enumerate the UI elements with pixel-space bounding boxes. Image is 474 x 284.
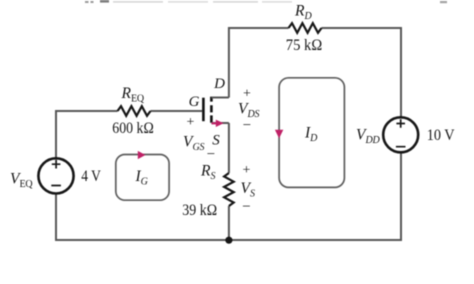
- svg-text:D: D: [213, 76, 225, 92]
- svg-text:10 V: 10 V: [427, 127, 456, 144]
- current loop ID: [279, 78, 344, 188]
- source VDD: [383, 117, 418, 152]
- ID loop arrow (magenta): [275, 130, 283, 139]
- wire left upper: VEQ top to REQ: [56, 111, 118, 158]
- resistor REQ: [118, 106, 151, 116]
- svg-text:75 kΩ: 75 kΩ: [286, 37, 322, 54]
- MOSFET source arrow (magenta): [212, 120, 224, 127]
- wire source riser / RS column: [228, 123, 230, 240]
- cropped text remnants top edge: [85, 0, 447, 3]
- svg-text:+: +: [243, 87, 251, 102]
- svg-text:−: −: [243, 118, 251, 134]
- junction node dot: [225, 237, 232, 244]
- wire top right: RD to right vertical: [322, 28, 402, 117]
- MOSFET source lead: [211, 122, 229, 124]
- resistor RD: [289, 23, 322, 33]
- MOSFET channel (dashed, enhancement mode): [210, 97, 213, 123]
- svg-text:4 V: 4 V: [81, 168, 101, 185]
- wire right lower: VDD bottom to bottom right corner: [229, 152, 401, 240]
- MOSFET drain lead: [211, 97, 229, 99]
- IG loop arrow (magenta): [138, 151, 146, 159]
- current loop IG: [116, 155, 169, 201]
- svg-text:600 kΩ: 600 kΩ: [112, 120, 154, 137]
- svg-text:+: +: [187, 115, 195, 130]
- wire bottom left: [56, 193, 229, 240]
- wire gate lead: [151, 110, 203, 112]
- MOSFET gate electrode bar: [202, 98, 205, 122]
- wire top: drain riser corner to right top corner: [229, 28, 289, 98]
- resistor RS: [224, 173, 234, 206]
- svg-text:−: −: [207, 147, 215, 163]
- svg-text:−: −: [242, 199, 250, 215]
- svg-text:G: G: [189, 94, 200, 110]
- svg-text:+: +: [243, 163, 251, 178]
- svg-text:39 kΩ: 39 kΩ: [182, 202, 217, 219]
- source VEQ: [38, 158, 73, 193]
